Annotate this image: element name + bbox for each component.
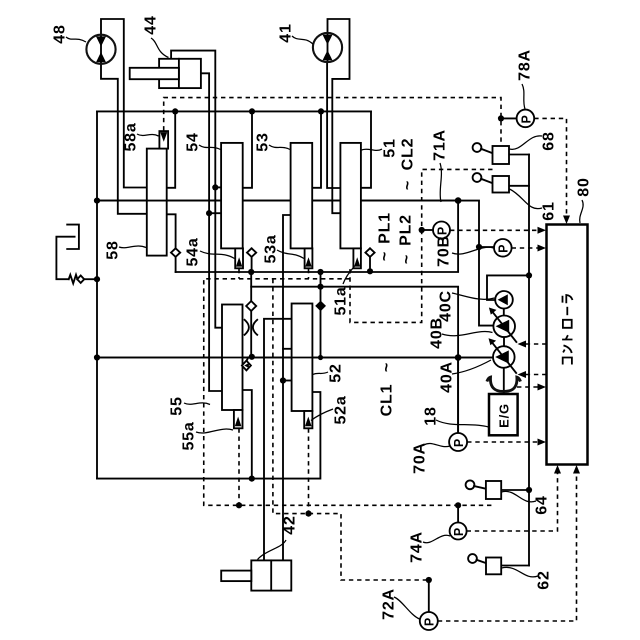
svg-text:~: ~: [400, 180, 417, 190]
label 51a: [333, 266, 355, 316]
svg-text:71A: 71A: [432, 129, 449, 161]
wire: pilot rail for levers (x=529): [528, 155, 530, 566]
wire: sensor P1 stub: [422, 229, 433, 231]
dashed stub: solenoid 54a: [238, 269, 240, 279]
lever valve 64: [466, 480, 502, 499]
svg-text:48: 48: [52, 24, 69, 43]
arrow into controller left (y=230.3): [538, 227, 547, 234]
wire: pilot column with shuttle diamond (x=320.5): [320, 272, 322, 358]
svg-text:41: 41: [278, 23, 295, 42]
wire: lever 62 to pilot rail: [501, 565, 529, 567]
solenoid 52a: [304, 411, 312, 428]
relief valve spring zigzag: [69, 275, 78, 284]
arrow into controller bottom (x=576.5): [573, 465, 580, 474]
label 78A: [517, 49, 534, 109]
valve 52: [292, 304, 313, 412]
wire: tank feed line: [56, 237, 74, 280]
label 48: [52, 24, 86, 43]
label 53a: [263, 234, 304, 263]
label 64: [502, 491, 551, 514]
dashed signal: solenoid 58a to lever 68 with sensor 78A tap: [164, 98, 501, 146]
redraw bus CL1 over valve bodies: [97, 357, 492, 359]
wire: pump shaft segments: [503, 308, 505, 394]
wire: cylinder 44 top port to valve 54/55 left line: [171, 51, 222, 328]
check diamond at valve 54: [247, 248, 256, 257]
arrow into controller left (y=442): [538, 439, 547, 446]
dashed stub: solenoid 53a: [308, 269, 310, 279]
svg-text:54: 54: [185, 132, 202, 151]
pump 40B (variable): [489, 308, 517, 343]
arrow into controller left (y=387): [538, 384, 547, 391]
svg-text:40A: 40A: [439, 361, 456, 393]
dashed signal bus under upper valves: [204, 279, 494, 506]
svg-text:53: 53: [255, 132, 272, 151]
arrow onto pump 40A control: [518, 371, 527, 378]
solenoid 54a: [235, 248, 243, 268]
svg-text:70A: 70A: [412, 442, 429, 474]
solenoid 58a: [159, 131, 168, 149]
wire: outer body top edge: [97, 110, 371, 112]
wire: pump 40C supply to pilot rail: [487, 275, 529, 300]
dashed signal: sensor 74A to controller bottom: [467, 473, 558, 531]
wire: relief valve to left edge: [84, 278, 97, 280]
svg-text:P: P: [452, 527, 466, 536]
wire: valve 51 check diamond line to bus PL2: [369, 249, 371, 272]
label 74A: [409, 531, 450, 563]
wire: valve 54 left port stub (y=187.4): [215, 186, 221, 188]
motor 41: [313, 33, 342, 62]
bowtie restrictor symbol: [245, 320, 258, 335]
dashed signal: sensor 78A to controller top: [534, 118, 566, 217]
wire: bus y=286.7 to pump column: [251, 287, 458, 433]
wire: valve 52 left port stub (y=348.8): [283, 348, 292, 350]
coupling symbol above E/G: [487, 377, 521, 391]
wire: sensor 74A drop line: [457, 505, 459, 522]
filled shuttle diamond (x=320.5): [315, 301, 326, 312]
wire: valve 53 right port from top edge: [313, 111, 321, 187]
svg-text:64: 64: [534, 495, 551, 514]
svg-text:62: 62: [536, 570, 553, 589]
label 54: [185, 132, 221, 151]
label 68: [510, 131, 558, 150]
wire: valve 58 right port down through check diamond to bus PL2: [167, 214, 176, 272]
svg-text:74A: 74A: [409, 531, 426, 563]
pressure sensor 70B: [494, 239, 512, 257]
svg-text:44: 44: [143, 15, 160, 34]
wire: sensor 72A drop line: [428, 580, 430, 612]
label 55: [169, 396, 210, 415]
label 62: [502, 567, 553, 589]
solenoid 53a: [305, 248, 313, 268]
label 71A: [432, 129, 449, 202]
solenoid 55a: [234, 410, 243, 428]
svg-text:52: 52: [328, 363, 345, 382]
motor 48: [86, 35, 115, 64]
dashed signal: controller to pump 40A: [526, 374, 547, 376]
pump 40A (variable): [489, 338, 517, 373]
label 52: [313, 363, 345, 382]
wire: motor 41 top line to valve 51 left port: [328, 19, 350, 213]
svg-text:CL2: CL2: [400, 138, 417, 171]
label 53: [255, 132, 290, 151]
cylinder 44: [130, 59, 201, 88]
label 51: [362, 138, 399, 157]
lever valve 61: [473, 173, 509, 192]
wire: valve 54 left port stub (y=213.2): [209, 212, 221, 214]
wire: main bus CL2 (y=200.6): [97, 200, 458, 202]
label 70B: [436, 235, 494, 267]
label 58a: [123, 122, 159, 151]
label 40A: [439, 360, 491, 393]
svg-text:~: ~: [399, 254, 416, 264]
label 41: [278, 23, 313, 44]
dashed signal: sensor P1 to controller: [450, 229, 538, 231]
pressure sensor 72A: [420, 612, 438, 630]
dashed signal: pilot line 71A from lever 61 to solenoid 51a: [350, 169, 493, 322]
wire: valve 52 left port stub (y=380.5): [283, 380, 292, 382]
wire: cylinder 44 right port to valve 54/55 left line: [201, 73, 222, 391]
dashed signal: solenoid 52a drop: [308, 428, 310, 513]
label 40B: [429, 317, 493, 349]
wire: sensor 78A stub: [501, 117, 517, 119]
cylinder 42: [221, 560, 291, 590]
tank symbol: [67, 225, 79, 249]
arrow into controller top: [563, 216, 570, 225]
svg-text:61: 61: [541, 201, 558, 220]
svg-text:CL1: CL1: [379, 384, 396, 417]
orifice diamond with plug below bus CL1: [242, 358, 251, 371]
wire: valve 53 left port line down to cylinder 42: [283, 215, 291, 560]
lever valve 62: [468, 554, 501, 574]
solenoid 51a: [353, 248, 361, 268]
check diamond at valve 58: [171, 248, 180, 257]
valve 54: [221, 143, 243, 249]
wire: main bus CL1 (y=357.5): [97, 357, 492, 359]
svg-text:P: P: [452, 438, 466, 447]
check diamond at valve 51: [365, 248, 374, 257]
dashed signal: sensor 70B to controller: [512, 247, 538, 249]
wire: outer body bottom edge to valve 52 right port: [97, 392, 320, 479]
svg-text:58: 58: [105, 240, 122, 259]
label 55a: [181, 421, 233, 450]
wire: pump 40B supply line to bus CL2: [458, 201, 492, 326]
dashed signal: controller to pump 40B: [526, 343, 547, 345]
svg-text:PL2: PL2: [398, 214, 415, 246]
svg-text:55: 55: [169, 396, 186, 415]
wire: motor 48 bottom line to valve 58 left port: [101, 64, 147, 214]
svg-text:80: 80: [576, 177, 593, 196]
svg-text:52a: 52a: [333, 395, 350, 424]
label CL2 with tilde: [400, 138, 417, 190]
svg-text:70B: 70B: [436, 235, 453, 267]
wire: valve 54 right port from top edge: [243, 111, 252, 187]
pressure sensor 74A: [450, 523, 467, 540]
label 54a: [185, 237, 235, 266]
svg-text:51: 51: [382, 138, 399, 157]
wire: sensor 70A drop line: [457, 358, 459, 434]
label 44: [143, 15, 169, 57]
wire: motor 48 top line to valve 58 left port: [101, 19, 147, 188]
svg-text:72A: 72A: [381, 588, 398, 620]
wire: bus PL2 (y=272): [176, 201, 459, 272]
pump 40C: [495, 291, 513, 309]
label 58: [105, 240, 146, 259]
wire: mid pilot column through check symbols: [250, 272, 252, 358]
svg-text:P: P: [497, 244, 511, 253]
svg-text:P: P: [519, 114, 533, 123]
svg-text:40B: 40B: [429, 317, 446, 349]
wire: valve 52 top-left port line down to cylinder 42: [264, 319, 292, 561]
dashed signal: sensor 70A to controller: [467, 441, 538, 443]
svg-text:78A: 78A: [517, 49, 534, 81]
dashed signal: sensor 72A to controller bottom: [438, 473, 577, 621]
wire: valve 55 right port down to bottom edge: [243, 390, 252, 479]
svg-text:~: ~: [377, 251, 394, 261]
svg-text:PL1: PL1: [377, 212, 394, 244]
pressure sensor 78A: [517, 110, 535, 128]
label 61: [510, 189, 558, 221]
wire: outer body left edge: [96, 111, 98, 478]
label PL2 with tilde: [398, 214, 416, 264]
svg-text:E/G: E/G: [496, 403, 511, 428]
wire: valve 51 right port from top edge corner: [361, 111, 371, 187]
label PL1 with tilde: [377, 212, 394, 261]
relief valve diamond: [77, 276, 84, 283]
label 40C: [438, 290, 495, 322]
valve 51: [340, 143, 361, 249]
label 80: [576, 177, 593, 223]
svg-text:18: 18: [423, 406, 440, 425]
wire: lever 64 to pilot rail: [501, 489, 529, 491]
arrow into controller left (y=248): [538, 245, 547, 252]
svg-text:42: 42: [282, 515, 299, 534]
controller box 80: [547, 225, 588, 465]
dashed signal: solenoid 55a drop: [238, 428, 240, 505]
lever valve 68: [473, 143, 509, 164]
wire: valve 54 check diamond line to bus PL2: [251, 249, 253, 272]
arrow onto pump 40B control: [518, 341, 527, 348]
label 42: [258, 515, 299, 559]
wire: lever 68 to pilot rail: [509, 154, 529, 156]
svg-text:68: 68: [541, 131, 558, 150]
label 72A: [381, 588, 420, 620]
open diamond on mid pilot column: [246, 301, 256, 311]
svg-text:51a: 51a: [333, 286, 350, 315]
pressure sensor 70A: [449, 433, 467, 451]
valve 55: [222, 305, 243, 411]
svg-text:53a: 53a: [263, 234, 280, 263]
wire: lever 61 to pilot rail: [509, 185, 529, 187]
svg-text:P: P: [423, 617, 437, 626]
wire: motor 41 bottom line to valve 51 left port: [327, 62, 340, 188]
svg-text:58a: 58a: [123, 122, 140, 151]
dashed signal: inner pilot path to sensor 72A line: [273, 279, 429, 580]
label 52a: [311, 395, 350, 424]
svg-text:~: ~: [379, 362, 396, 372]
valve 53: [291, 143, 313, 249]
controller label: [562, 295, 572, 365]
valve 58: [97, 149, 458, 256]
label 18: [423, 406, 489, 427]
label CL1 with tilde: [379, 362, 396, 416]
wire: valve 58 right port from top edge: [167, 111, 176, 187]
engine E/G box: [489, 394, 518, 435]
wire: sensor 70B tap on pump line: [479, 246, 494, 248]
svg-text:54a: 54a: [185, 237, 202, 266]
label 70A: [412, 442, 450, 474]
svg-text:55a: 55a: [181, 421, 198, 450]
arrow into controller bottom (x=557.5): [554, 465, 561, 474]
pressure sensor P on pilot line 71A: [433, 222, 450, 239]
dashed signal: engine speed to controller: [517, 386, 538, 388]
svg-text:P: P: [435, 226, 449, 235]
